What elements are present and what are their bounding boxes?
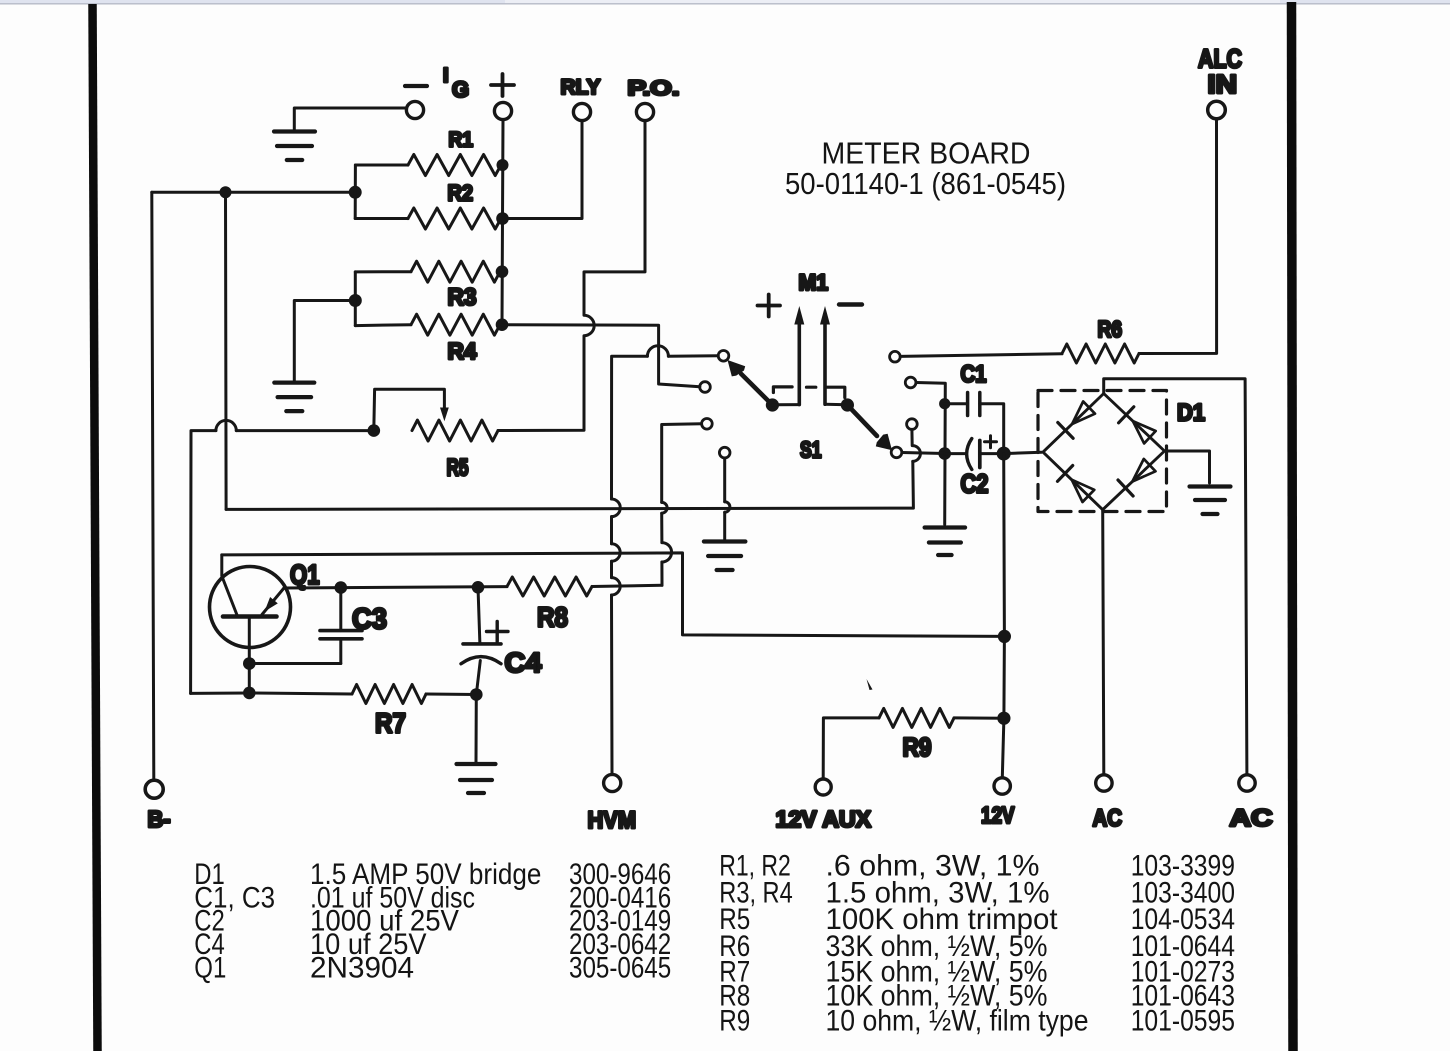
- capacitor C3: [320, 629, 362, 633]
- wire: right contact1 to R6: [900, 354, 1062, 357]
- wire2: Q1 collector top rail to C2+ vertical: [222, 553, 1005, 637]
- svg-text:R9: R9: [903, 732, 932, 762]
- svg-text:2N3904: 2N3904: [310, 952, 414, 985]
- wire: bridge top vertex up and over to right AC drop: [1104, 379, 1247, 775]
- wire: R4 output to S1 contact 2 (corner at x658): [502, 325, 700, 387]
- switch S1 left section contact 4: [719, 447, 730, 458]
- terminal ALC IN: [1208, 101, 1226, 119]
- svg-text:I: I: [443, 65, 449, 87]
- wire: HVM riser with hops, S1-left contact1 feed: [612, 356, 719, 775]
- diode D1d (right to bottom): [1118, 480, 1133, 496]
- svg-text:P.O.: P.O.: [628, 76, 680, 100]
- svg-text:M1: M1: [799, 270, 829, 295]
- ground G4: [457, 762, 496, 766]
- label IG plus: [491, 83, 514, 87]
- wire: wiper1 pivot to M1 plus arrow: [772, 403, 799, 406]
- terminal 12V: [994, 778, 1010, 794]
- node dot R3 right: [496, 265, 509, 278]
- wire: R6 to ALC IN terminal: [1139, 119, 1217, 353]
- switch S1 wiper 1: [741, 374, 772, 405]
- node dot R1 right: [497, 159, 509, 171]
- terminal RLY: [573, 103, 590, 120]
- hop: contact1 wire over x658 vertical: [647, 346, 668, 356]
- hop: R5 wire over x226 vertical: [216, 420, 236, 430]
- svg-text:G: G: [452, 77, 469, 102]
- parts list left column: [194, 858, 671, 985]
- wire: R3/R4 left bus: [354, 272, 357, 326]
- svg-text:101-0595: 101-0595: [1131, 1005, 1235, 1038]
- hop: HVM vertical over wire1: [612, 499, 621, 517]
- svg-text:AC: AC: [1093, 805, 1123, 832]
- diode bridge D1 dashed box: [1038, 391, 1167, 512]
- resistor R8: [507, 577, 592, 596]
- wire: right contact4 to C2 row: [902, 453, 945, 454]
- terminal AC right: [1239, 775, 1255, 791]
- svg-text:RLY: RLY: [561, 75, 601, 99]
- svg-text:AC: AC: [1230, 805, 1273, 832]
- hop: contact4 stub over wire1: [725, 502, 730, 512]
- wire: + rail vertical through R1 R2 R3 R4 junctions: [502, 120, 503, 325]
- switch S1 right section contact 2: [905, 377, 916, 388]
- wire: contact4 stub to ground G3 with hop over wire1: [723, 458, 726, 540]
- ink mark artifact: [867, 679, 873, 690]
- wire: long left rail at y=192: [152, 191, 355, 194]
- node dot R7 right / C4 bottom: [470, 688, 483, 701]
- label M1 plus sign: [758, 304, 781, 308]
- transistor Q1: [210, 567, 291, 648]
- svg-text:10 ohm, ½W, film type: 10 ohm, ½W, film type: [826, 1005, 1089, 1038]
- resistor R6: [1062, 344, 1139, 363]
- node dot R9 junction: [997, 712, 1010, 725]
- wire: right contact2 down to C1/C2 left and ground G5: [916, 383, 945, 525]
- svg-text:IN: IN: [1208, 69, 1238, 99]
- svg-text:D1: D1: [1177, 400, 1205, 427]
- switch S1 right section contact 1: [890, 351, 901, 362]
- terminal AC left: [1096, 775, 1112, 791]
- resistor R4: [355, 323, 411, 327]
- svg-text:R8: R8: [537, 602, 568, 633]
- diode D1c (bottom to left): [1058, 466, 1073, 482]
- resistor R9: [879, 708, 954, 727]
- svg-text:50-01140-1 (861-0545): 50-01140-1 (861-0545): [785, 166, 1066, 201]
- switch S1 left section contact 1: [718, 351, 729, 362]
- wire: minus arrow to wiper2 pivot: [825, 403, 847, 407]
- wire1: long rail y~509 from x226 corner to S1 right contact 3 stub: [226, 461, 913, 509]
- capacitor C2: [967, 439, 972, 470]
- diode D1b (right to top): [1119, 407, 1134, 423]
- switch S1 right section contact 3: [907, 419, 918, 430]
- trimpot R5 wiper loop and arrow: [374, 389, 445, 430]
- svg-text:C1: C1: [961, 361, 987, 388]
- wire: R5 left lead with hop over x226 vertical, to Q1 base rail: [191, 431, 374, 694]
- switch S1 right section contact 4: [891, 447, 902, 458]
- hop: x662 riser over wire2 (large arc): [662, 543, 672, 562]
- wire: base/C3-bottom link y663.5: [249, 662, 340, 665]
- svg-text:C4: C4: [505, 647, 542, 678]
- node dot C3 top junction: [335, 581, 348, 594]
- hop: x662 riser over wire1: [662, 502, 667, 513]
- svg-text:HVM: HVM: [588, 807, 637, 834]
- bridge diamond: [1043, 394, 1165, 510]
- switch S1 left section contact 3: [702, 419, 713, 430]
- wire: 12V rail vertical: [1002, 454, 1004, 778]
- meter M1 plus arrow: [797, 323, 801, 405]
- hop: HVM vertical over wire2: [612, 544, 621, 561]
- page left border bar: [93, 4, 98, 1051]
- wire: R2 junction to RLY terminal: [503, 121, 583, 219]
- wire: P.O. drop, hop over R4 wire, to R5 right end: [498, 121, 645, 431]
- label C2 plus sign: [985, 440, 997, 443]
- node dot R7 left / base: [243, 687, 256, 700]
- resistor R5 (trimpot): [412, 420, 498, 441]
- node dot C2 right big junction: [997, 447, 1011, 461]
- ground G3: [704, 539, 746, 543]
- svg-text:R3: R3: [448, 284, 477, 311]
- label M1 minus sign: [839, 302, 862, 306]
- node dot base/C3 junction: [243, 657, 256, 670]
- S1 wiper1 pivot dot: [766, 398, 779, 411]
- Q1 arrow: [265, 597, 278, 612]
- switch S1 left section contact 2: [700, 382, 711, 393]
- Q1 base lead vertical: [248, 619, 251, 693]
- node dot R2 right: [496, 212, 509, 225]
- M1 connector dashed outline: [773, 387, 845, 406]
- svg-text:R6: R6: [1098, 316, 1123, 342]
- label IG minus: [405, 84, 427, 88]
- svg-text:12V: 12V: [981, 802, 1015, 828]
- wire: bridge bottom vertex down to left AC terminal: [1103, 510, 1104, 775]
- svg-text:R9: R9: [719, 1005, 750, 1038]
- parts list right column: [719, 850, 1235, 1038]
- terminal 12V AUX: [815, 779, 831, 795]
- wire: big junction to bridge left vertex: [1004, 452, 1042, 453]
- node junction dot on y192 rail: [220, 186, 232, 198]
- node dot C4 top junction: [472, 581, 485, 594]
- svg-text:Q1: Q1: [194, 952, 226, 985]
- node dot R4 right: [496, 318, 509, 331]
- svg-text:C2: C2: [961, 469, 989, 499]
- terminal P.O.: [636, 103, 653, 120]
- node dot R5 wiper junction: [368, 424, 381, 437]
- wire: y588 collector rail from Q1 to R8: [284, 587, 507, 588]
- terminal B-: [145, 780, 163, 798]
- svg-text:C3: C3: [352, 604, 387, 636]
- wire: IG- terminal to ground G1: [294, 108, 406, 130]
- svg-text:S1: S1: [800, 437, 822, 463]
- wire: vertical from y192 rail down to wire1 corner: [224, 192, 228, 509]
- Q1 base bar: [223, 614, 277, 619]
- svg-text:R5: R5: [447, 455, 469, 482]
- resistor R3: [355, 270, 411, 273]
- capacitor C4 plus mark: [487, 630, 509, 633]
- page right border bar: [1292, 2, 1294, 1051]
- hop: HVM vertical over R8 wire: [612, 578, 621, 595]
- node junction dot R3/R4 left bus: [349, 294, 362, 307]
- wire: R3/R4 bus to ground G2: [294, 301, 355, 382]
- node dot C2 left junction: [938, 447, 951, 460]
- wire: bridge right vertex to ground G6: [1165, 451, 1210, 483]
- svg-text:12V AUX: 12V AUX: [776, 806, 872, 832]
- hop: contact3 stub over C2 row wire: [912, 429, 921, 461]
- ground G5: [925, 525, 966, 529]
- node dot C1 left junction: [939, 398, 950, 409]
- wire: R8 right to x662 riser corner: [592, 585, 662, 586]
- diode D1a (top to left): [1058, 423, 1073, 439]
- S1 wiper2 pivot dot: [841, 398, 854, 411]
- ground G6: [1190, 484, 1231, 488]
- svg-text:R2: R2: [448, 181, 474, 206]
- resistor R7: [191, 693, 352, 694]
- svg-text:R4: R4: [448, 338, 477, 364]
- node junction dot R1/R2 left bus: [349, 186, 362, 199]
- resistor R1: [355, 164, 408, 167]
- svg-text:305-0645: 305-0645: [569, 952, 671, 985]
- terminal IG-: [406, 101, 423, 118]
- wire: B- rail down left side: [152, 192, 154, 780]
- svg-text:Q1: Q1: [290, 559, 320, 590]
- svg-text:R7: R7: [375, 708, 406, 739]
- meter M1 minus arrow: [823, 323, 827, 405]
- capacitor C1: [966, 393, 970, 416]
- svg-text:R1: R1: [449, 129, 474, 152]
- capacitor C4: [463, 642, 501, 646]
- Q1 right lead (to y588 wire): [262, 588, 284, 615]
- switch S1 wiper 2: [847, 405, 877, 436]
- terminal HVM: [604, 774, 621, 791]
- ground G2: [274, 381, 314, 385]
- wire: S1-left contact3 to R8 riser (x662) with hops: [662, 424, 702, 586]
- terminal IG+: [494, 102, 511, 119]
- wire: R1/R2 left bus: [354, 165, 357, 219]
- node dot wire2 junction: [998, 630, 1011, 643]
- resistor R2: [355, 217, 408, 220]
- svg-text:B-: B-: [148, 806, 171, 832]
- Q1 left lead (from wire2): [222, 555, 237, 615]
- wire: C4 to ground G4: [475, 695, 478, 763]
- ground G1: [274, 129, 315, 133]
